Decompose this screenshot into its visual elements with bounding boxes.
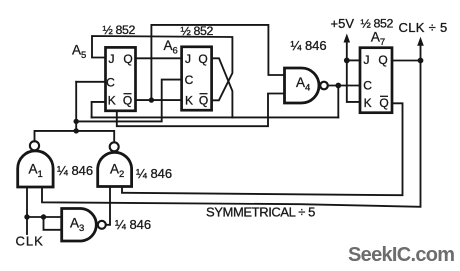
wire A3 output to A2 left input [106,187,110,225]
svg-text:CLK ÷ 5: CLK ÷ 5 [399,20,448,35]
gate A2 NAND body (points up) [98,152,132,186]
wire CLK/5 arrow stem [420,44,422,61]
node CLK junction dot [24,214,29,219]
wire A5 bottom pin to A4 lower input [117,94,285,127]
svg-text:Q: Q [123,52,132,66]
wire A7 Q output [392,60,421,62]
wire A3 lower input branch [44,217,62,230]
wire A1 out rail to A2 bubble [35,131,115,142]
overbar for Qbar of A6 [200,93,208,95]
overbar for Qbar of A5 [124,93,132,95]
CLK/5 arrow head [417,37,424,46]
A3 output bubble [98,221,106,229]
gate A1 NAND body (points up) [18,151,53,187]
svg-text:½ 852: ½ 852 [361,17,394,31]
svg-text:J: J [364,53,370,67]
svg-text:C: C [185,73,194,87]
flip-flop A7 (1/2 852) box [360,48,392,113]
gate A3 NAND body (points right) [62,209,97,242]
wire A5 K loop [92,102,106,118]
svg-text:SYMMETRICAL ÷ 5: SYMMETRICAL ÷ 5 [206,205,315,220]
node +5V / A7 J junction dot [344,58,350,64]
wire CLK to A3 upper input [27,216,62,218]
svg-text:¼ 846: ¼ 846 [115,217,151,232]
svg-text:SeekIC.com: SeekIC.com [348,244,454,266]
svg-text:½ 852: ½ 852 [103,23,136,37]
flip-flop A5 (1/2 852) box [106,47,136,110]
wire clock rail to A6 C [76,80,181,122]
svg-text:K: K [364,96,372,110]
node A7 Q / CLK/5 junction dot [418,58,424,64]
wire A7 J input [347,59,360,61]
svg-text:Q: Q [123,94,132,108]
wire CLK vertical [26,187,28,234]
svg-text:¼ 846: ¼ 846 [136,166,172,181]
wire A6 Q to A5 K crossover diagonal [212,58,233,117]
wire A5 Qbar net top loop to A4 upper input [151,25,284,100]
svg-text:C: C [363,79,372,93]
wire clock column [75,82,77,131]
svg-text:K: K [108,93,116,107]
A4 output bubble [320,82,328,90]
wire A5 J loop from A6 Qbar via top rail [92,36,232,100]
node A1 out rail junction dot [74,128,79,133]
svg-text:Q: Q [198,52,207,66]
wire +5V line to A7 J and K [347,41,360,102]
svg-text:+5V: +5V [331,16,355,31]
wire A7 Q feedback to A1 input [42,61,421,207]
svg-text:J: J [185,52,191,66]
node A4 output junction dot [335,83,341,89]
node A5 Qbar junction dot [149,97,154,102]
wire A7 Qbar feedback to A2 input [122,103,403,195]
svg-text:C: C [106,75,115,89]
svg-text:J: J [109,52,115,66]
+5V arrow head [344,34,351,43]
svg-text:¼ 846: ¼ 846 [57,163,93,178]
node clock rail junction dot [74,119,79,124]
wire A4 output drop to rail [337,86,339,118]
gate A4 NAND body (points right) [285,68,320,103]
wire A4 output to A7 C [328,85,360,87]
svg-text:Q: Q [199,94,208,108]
A2 output bubble [110,142,119,151]
svg-text:CLK: CLK [16,234,44,249]
svg-text:Q: Q [378,53,387,67]
flip-flop A6 (1/2 852) box [182,47,212,110]
svg-text:Q: Q [379,96,388,110]
svg-text:¼ 846: ¼ 846 [291,38,327,53]
A1 output bubble [30,141,39,150]
wire long rail under FFs (A5 K net) [92,116,339,118]
wire A5 Q to A6 J [136,57,182,59]
svg-text:K: K [185,94,193,108]
node A3 input branch dot [41,214,46,219]
wire A5 Qbar to A6 K [136,99,182,101]
overbar for Qbar of A7 [380,95,388,97]
svg-text:½ 852: ½ 852 [181,24,214,38]
wire A5 C input [76,81,105,83]
